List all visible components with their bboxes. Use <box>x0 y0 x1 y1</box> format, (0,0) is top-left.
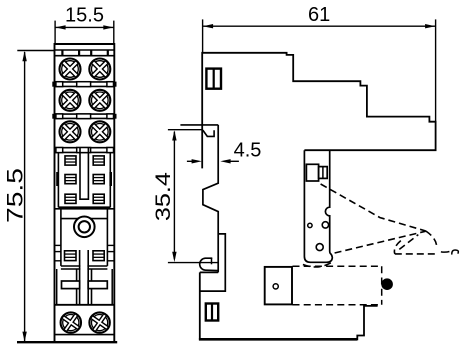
clip bottom line <box>200 271 218 273</box>
retaining pin dot <box>381 278 393 290</box>
din clip pocket <box>203 130 214 136</box>
separator band 1 <box>52 82 116 87</box>
wall hole 3 <box>316 244 323 251</box>
screw terminal row 3 left <box>60 121 81 142</box>
front view body outline <box>55 44 115 342</box>
wall connector block A <box>306 164 318 181</box>
contact vent row 3 right <box>93 194 104 203</box>
contact vent row 1 left <box>65 156 76 165</box>
screw terminal row 1 left <box>60 59 81 80</box>
dashed relay outline <box>293 266 382 304</box>
lever slot verticals <box>77 269 92 305</box>
lever tip tail <box>441 250 458 255</box>
lower vent left <box>65 251 77 261</box>
screw terminal row 2 right <box>89 90 110 111</box>
bottom screw right <box>89 312 109 332</box>
bottom section top line <box>55 304 115 306</box>
center wall <box>304 150 332 262</box>
screw terminal row 3 right <box>89 121 110 142</box>
dimension 4.5 arrows <box>187 160 239 162</box>
svg-text:35.4: 35.4 <box>152 172 175 221</box>
screw terminal row 1 right <box>89 59 110 80</box>
screw terminal row 2 left <box>60 90 81 111</box>
retaining tick right <box>109 172 112 186</box>
middle section bottom lines <box>55 207 115 266</box>
lower vent right <box>93 251 104 261</box>
svg-text:61: 61 <box>308 4 330 26</box>
dimension line 35.4 <box>168 130 218 263</box>
din clip top bar <box>180 124 218 126</box>
front view top strip <box>55 50 115 56</box>
bottom edge and extension <box>17 341 117 343</box>
side view top profile <box>202 53 435 169</box>
bottom rail stop block <box>206 304 218 321</box>
contact vent row 3 left <box>65 194 76 203</box>
center tab <box>80 250 87 305</box>
clip bar left <box>62 281 80 289</box>
center channel <box>80 148 88 200</box>
dimension line 75.5 <box>17 51 54 342</box>
center mounting hole <box>74 217 95 238</box>
retaining tick left <box>56 172 59 186</box>
wall connector block B <box>319 167 328 179</box>
bottom screw left <box>61 312 81 332</box>
separator band 3 <box>55 148 115 153</box>
contact vent row 2 left <box>65 175 76 184</box>
side view bottom profile <box>199 272 201 340</box>
svg-text:75.5: 75.5 <box>2 168 27 223</box>
wall hole 1 <box>308 223 312 227</box>
din channel inner wall with rail groove <box>203 125 218 273</box>
svg-text:15.5: 15.5 <box>65 5 104 27</box>
bottom inner line <box>55 334 115 336</box>
clip hook <box>200 258 219 270</box>
relay body block <box>265 267 292 305</box>
side step lines <box>55 245 115 260</box>
dimension line 61 <box>203 19 436 121</box>
middle section inner walls <box>58 152 110 207</box>
lower cross lines <box>61 266 108 269</box>
separator band 2 <box>52 114 116 119</box>
lever section inner wall lines <box>57 269 112 305</box>
dimension line 15.5 <box>55 21 114 44</box>
svg-text:4.5: 4.5 <box>234 140 262 162</box>
contact vent row 2 right <box>93 175 104 184</box>
wall hole 2 <box>322 222 328 228</box>
contact vent row 1 right <box>93 156 104 165</box>
din rail stop block <box>206 69 221 89</box>
clip bar right <box>88 281 107 289</box>
clip slider step <box>200 234 226 291</box>
dashed release lever <box>303 184 437 267</box>
